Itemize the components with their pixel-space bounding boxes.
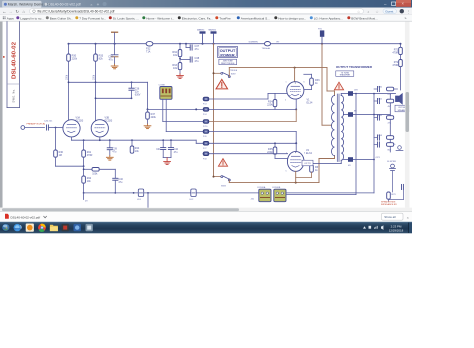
svg-text:EL34: EL34 <box>307 102 313 105</box>
svg-text:16R: 16R <box>354 90 358 92</box>
svg-text:Show all: Show all <box>384 215 396 219</box>
switch SW3 <box>213 176 231 188</box>
capacitor C55 <box>389 184 404 199</box>
plug PC8 <box>209 29 217 44</box>
resistor R35 grid <box>267 143 287 158</box>
svg-text:TRIODE: TRIODE <box>230 70 238 72</box>
svg-text:EL34: EL34 <box>306 152 312 155</box>
inter-board link L2 <box>203 107 209 116</box>
svg-text:470R: 470R <box>87 154 93 157</box>
svg-text:PC4: PC4 <box>203 114 207 116</box>
OT core <box>337 94 339 162</box>
svg-text:PENT/TRIODE: PENT/TRIODE <box>221 63 235 65</box>
RC row 4 <box>374 135 394 145</box>
ground (bias pair) red <box>163 158 171 160</box>
chrome icon <box>38 224 46 232</box>
resistor R72 <box>392 55 402 91</box>
resistor R71 <box>392 44 402 55</box>
plug HT3 <box>318 29 324 44</box>
resistor R30 <box>67 54 78 61</box>
svg-text:47u: 47u <box>109 59 114 62</box>
OT secondary bottom end to OP terminal <box>302 160 341 166</box>
tray glyphs <box>363 225 383 230</box>
jack J5 <box>393 144 403 151</box>
scrollbars on top of page <box>0 22 412 212</box>
inter-board link L4 <box>203 130 209 139</box>
svg-text:ECC83: ECC83 <box>76 119 84 122</box>
svg-text:Home - Welcome t...: Home - Welcome t... <box>146 16 174 20</box>
RC row 2 <box>374 98 394 108</box>
ground (filter) red <box>177 74 184 79</box>
phase splitter output line 1 <box>68 81 148 83</box>
inter-board link L6 <box>203 152 209 161</box>
svg-text:How to design you...: How to design you... <box>278 16 306 20</box>
resistor R33 <box>94 54 104 61</box>
guest chip + avatar + menu <box>383 9 397 14</box>
coupling drop wire <box>147 82 149 109</box>
capacitor C36 <box>129 82 141 98</box>
wire: plate riser V3A <box>68 44 70 121</box>
svg-text:MAINS1: MAINS1 <box>197 29 205 32</box>
cathode stubs and rail <box>72 137 197 141</box>
capacitor C34 electrolytic branch <box>108 32 118 64</box>
svg-text:AmericanMusical S...: AmericanMusical S... <box>241 16 270 20</box>
svg-text:TrueFire: TrueFire <box>219 16 231 20</box>
interboard wire C maroon <box>163 109 296 121</box>
svg-text:MAINS2: MAINS2 <box>209 29 217 32</box>
svg-text:→: → <box>9 9 14 14</box>
B+ rail <box>69 43 401 45</box>
capacitor C38 <box>180 57 200 63</box>
svg-text:OP1: OP1 <box>376 157 381 159</box>
svg-text:+: + <box>97 2 100 7</box>
resistor R43 feedback <box>83 168 116 176</box>
omnibox <box>30 9 364 14</box>
RC row 3 <box>374 115 394 125</box>
wmp icon blue <box>74 224 81 231</box>
svg-text:220k: 220k <box>72 58 78 61</box>
show desktop sliver <box>408 223 410 234</box>
resistor R42 tail <box>82 166 92 193</box>
svg-text:DWG. No.: DWG. No. <box>13 89 16 103</box>
svg-text:BGW Brand Musi...: BGW Brand Musi... <box>351 16 378 20</box>
capacitor C39 bypass <box>107 140 117 155</box>
OUTPUT POWER box <box>218 47 238 58</box>
tube V3B ECC83 <box>91 117 113 137</box>
connector block CON10A <box>251 186 272 202</box>
active tab <box>2 1 42 8</box>
svg-text:file:///C:/Users/Marty/Downloa: file:///C:/Users/Marty/Downloads/DSL40-6… <box>38 10 115 14</box>
svg-text:↻: ↻ <box>16 9 20 14</box>
speaker info box <box>395 105 410 112</box>
svg-text:DSL40-60-02: DSL40-60-02 <box>11 42 17 79</box>
left grey gutter <box>0 22 3 208</box>
svg-text:PC7: PC7 <box>203 148 207 150</box>
svg-text:6: 6 <box>304 82 305 84</box>
speaker warning text <box>381 201 397 207</box>
svg-text:100k: 100k <box>92 172 98 175</box>
OT secondary winding <box>341 96 343 161</box>
svg-text:SCREEN: SCREEN <box>249 42 259 44</box>
interboard wire F <box>203 153 288 155</box>
svg-text:Electronics, Cars, Fa...: Electronics, Cars, Fa... <box>182 16 213 20</box>
svg-text:SW3: SW3 <box>221 186 227 188</box>
tube V2 EL34 <box>286 149 313 172</box>
B+ maroon riser to OT centre tap <box>322 44 332 126</box>
svg-text:5: 5 <box>285 100 286 102</box>
block pin drop 2 <box>165 99 167 131</box>
svg-text:Bass Guitar Sh...: Bass Guitar Sh... <box>50 16 74 20</box>
interboard wire E <box>196 140 297 151</box>
svg-text:47u: 47u <box>118 181 123 184</box>
svg-text:47u: 47u <box>195 48 200 51</box>
svg-text:5: 5 <box>286 171 287 173</box>
svg-text:IMPEDANCE 8R: IMPEDANCE 8R <box>381 203 397 206</box>
svg-text:SPEAKER MIN: SPEAKER MIN <box>381 201 396 204</box>
svg-text:OUTPUT TRANSFORMER: OUTPUT TRANSFORMER <box>336 65 373 69</box>
fuse FS2 inline <box>146 41 153 53</box>
resistor R62 (filter) <box>172 44 181 57</box>
title block divider <box>7 83 20 85</box>
long return wire A <box>373 94 375 193</box>
svg-text:⌕: ⌕ <box>368 10 370 14</box>
title block border left line <box>6 22 8 108</box>
RC row 5 <box>374 142 394 152</box>
svg-text:C26 22n: C26 22n <box>44 121 53 123</box>
feedback network riser <box>389 94 391 152</box>
OT secondary top tap wire <box>341 90 395 96</box>
white page <box>3 22 405 208</box>
grid leak riser <box>55 128 57 151</box>
svg-text:J6 SPKR: J6 SPKR <box>387 161 396 163</box>
warning triangle (SW2) <box>216 79 228 89</box>
polarized cap D1 on rail <box>137 189 144 201</box>
svg-text:Marsh. WebAmp Demo v2.0: Marsh. WebAmp Demo v2.0 <box>8 3 51 7</box>
block pin drop 1 <box>162 99 164 121</box>
folder icon <box>50 225 58 231</box>
IE icon <box>14 224 22 231</box>
resistor R63 (filter) <box>172 57 181 74</box>
tube V1 EL34 <box>285 82 313 105</box>
resistor R40 <box>54 150 64 157</box>
resistor R47 <box>146 108 157 124</box>
phase splitter output line 2 <box>95 97 133 99</box>
utility icon grey <box>86 224 93 231</box>
svg-text:1M: 1M <box>59 154 62 157</box>
tube V3A ECC83 <box>63 117 84 137</box>
plug PC7 <box>197 29 206 44</box>
ground (R47) <box>144 124 151 129</box>
cathode bottom link <box>56 157 85 167</box>
svg-text:47u: 47u <box>195 60 200 63</box>
warning triangle (OT) <box>334 82 343 90</box>
resistor R41 <box>82 140 93 157</box>
tab strip frame <box>0 0 412 8</box>
svg-text:12/29/2018: 12/29/2018 <box>389 228 404 232</box>
svg-text:7 Day Forecast fo...: 7 Day Forecast fo... <box>79 16 106 20</box>
svg-text:×: × <box>407 216 409 220</box>
svg-text:⋮: ⋮ <box>407 10 411 14</box>
start orb <box>2 223 11 232</box>
svg-text:CON10A: CON10A <box>257 186 266 189</box>
svg-text:470R: 470R <box>392 52 398 55</box>
svg-text:PC8: PC8 <box>203 158 207 160</box>
svg-text:630V: 630V <box>135 93 141 96</box>
OT primary winding <box>332 96 335 156</box>
svg-text:PREAMP IN (PCB): PREAMP IN (PCB) <box>27 123 46 126</box>
svg-text:DSL40-60-02-v02.pdf: DSL40-60-02-v02.pdf <box>11 216 41 220</box>
title block border right line <box>19 22 21 108</box>
inter-board link L1 <box>203 97 209 106</box>
svg-text:47u: 47u <box>174 151 179 154</box>
node dots on B+ rail <box>68 43 402 45</box>
OT secondary mid tap wire <box>344 111 391 117</box>
svg-text:OP TX: OP TX <box>304 163 311 165</box>
wire: plate riser V3B <box>95 44 97 121</box>
output power sub box <box>219 59 238 72</box>
OT info box <box>336 71 354 77</box>
connector block CON8 <box>159 84 173 99</box>
capacitor C40 <box>113 169 124 194</box>
interboard wire D <box>166 132 296 144</box>
interboard wire B <box>148 99 298 110</box>
svg-text:CON8: CON8 <box>159 84 166 86</box>
svg-text:220k: 220k <box>151 116 157 119</box>
show all button <box>382 213 404 220</box>
svg-text:PC3: PC3 <box>203 104 207 106</box>
svg-text:←: ← <box>2 9 7 14</box>
ground (C34) <box>111 64 118 69</box>
svg-text:6: 6 <box>304 153 305 155</box>
resistor R34 grid <box>267 94 287 110</box>
svg-text:100k: 100k <box>66 74 68 80</box>
svg-text:Apps: Apps <box>7 16 15 20</box>
orange icon <box>26 224 34 232</box>
svg-text:TRANSFMR: TRANSFMR <box>340 74 351 77</box>
toolbar row <box>0 8 412 15</box>
connector block CON10B <box>272 187 286 202</box>
svg-text:470R: 470R <box>392 64 398 67</box>
title block bottom line <box>7 107 20 109</box>
svg-text:T1A: T1A <box>146 50 151 53</box>
svg-text:220k: 220k <box>267 104 273 107</box>
bookmarks bar <box>0 15 412 21</box>
svg-text:ECC83: ECC83 <box>105 119 113 122</box>
svg-text:T500mA: T500mA <box>262 47 271 50</box>
tab 2 <box>44 3 47 6</box>
red tick mark <box>3 56 5 58</box>
svg-text:SW2: SW2 <box>231 73 237 75</box>
svg-text:St. Louis Sports, ...: St. Louis Sports, ... <box>113 16 139 20</box>
speaker pair wire upper <box>286 192 374 194</box>
resistor R37 screen <box>296 161 320 177</box>
long return wire B <box>355 94 357 195</box>
svg-text:LG: Home Applianc...: LG: Home Applianc... <box>314 16 343 20</box>
ground (C39) <box>106 156 113 161</box>
svg-text:47u: 47u <box>112 151 117 154</box>
warning triangle (SW3) <box>218 159 227 167</box>
0V bottom rail <box>83 192 259 208</box>
switch SW2 <box>213 72 237 77</box>
svg-text:POWER: POWER <box>220 53 235 57</box>
OT secondary bottom tap wire <box>344 157 381 167</box>
HT maroon riser (mains plug feed) <box>213 44 215 177</box>
svg-text:Logged in to so...: Logged in to so... <box>20 16 44 20</box>
svg-text:C41: C41 <box>156 148 161 151</box>
maroon cathode rail V2 <box>229 156 334 184</box>
interboard wire A <box>203 94 275 100</box>
capacitor C41 bias pair <box>156 140 166 157</box>
inter-board link L3 <box>203 120 209 129</box>
resistor R36 screen <box>304 74 320 89</box>
svg-text:PC6: PC6 <box>203 136 207 138</box>
resistor R73 <box>387 192 397 201</box>
capacitor C42 bias pair <box>168 140 178 157</box>
polarized cap D2 on rail <box>190 189 197 201</box>
pdf icon <box>5 214 9 219</box>
svg-text:»: » <box>405 17 407 21</box>
RC row 1 <box>374 86 398 96</box>
maroon plate rail V1 <box>229 67 334 96</box>
capacitor C37 <box>179 44 200 60</box>
svg-text:DSL40-60-02-v02.pdf: DSL40-60-02-v02.pdf <box>48 3 80 7</box>
jack J6 <box>387 161 396 192</box>
speaker pair wire lower <box>286 194 356 196</box>
svg-text:CON10B: CON10B <box>272 187 281 189</box>
svg-text:Guest: Guest <box>385 9 393 13</box>
speaker icon <box>396 94 403 104</box>
svg-text:100k: 100k <box>93 74 95 80</box>
resistor R44 <box>130 140 140 153</box>
input jack <box>21 123 45 130</box>
fuse F4 HT <box>249 42 281 51</box>
capacitor C1 input <box>44 121 63 131</box>
media icon dark <box>62 224 69 231</box>
inter-board link L5 <box>203 141 209 150</box>
svg-text:1: 1 <box>286 82 287 84</box>
